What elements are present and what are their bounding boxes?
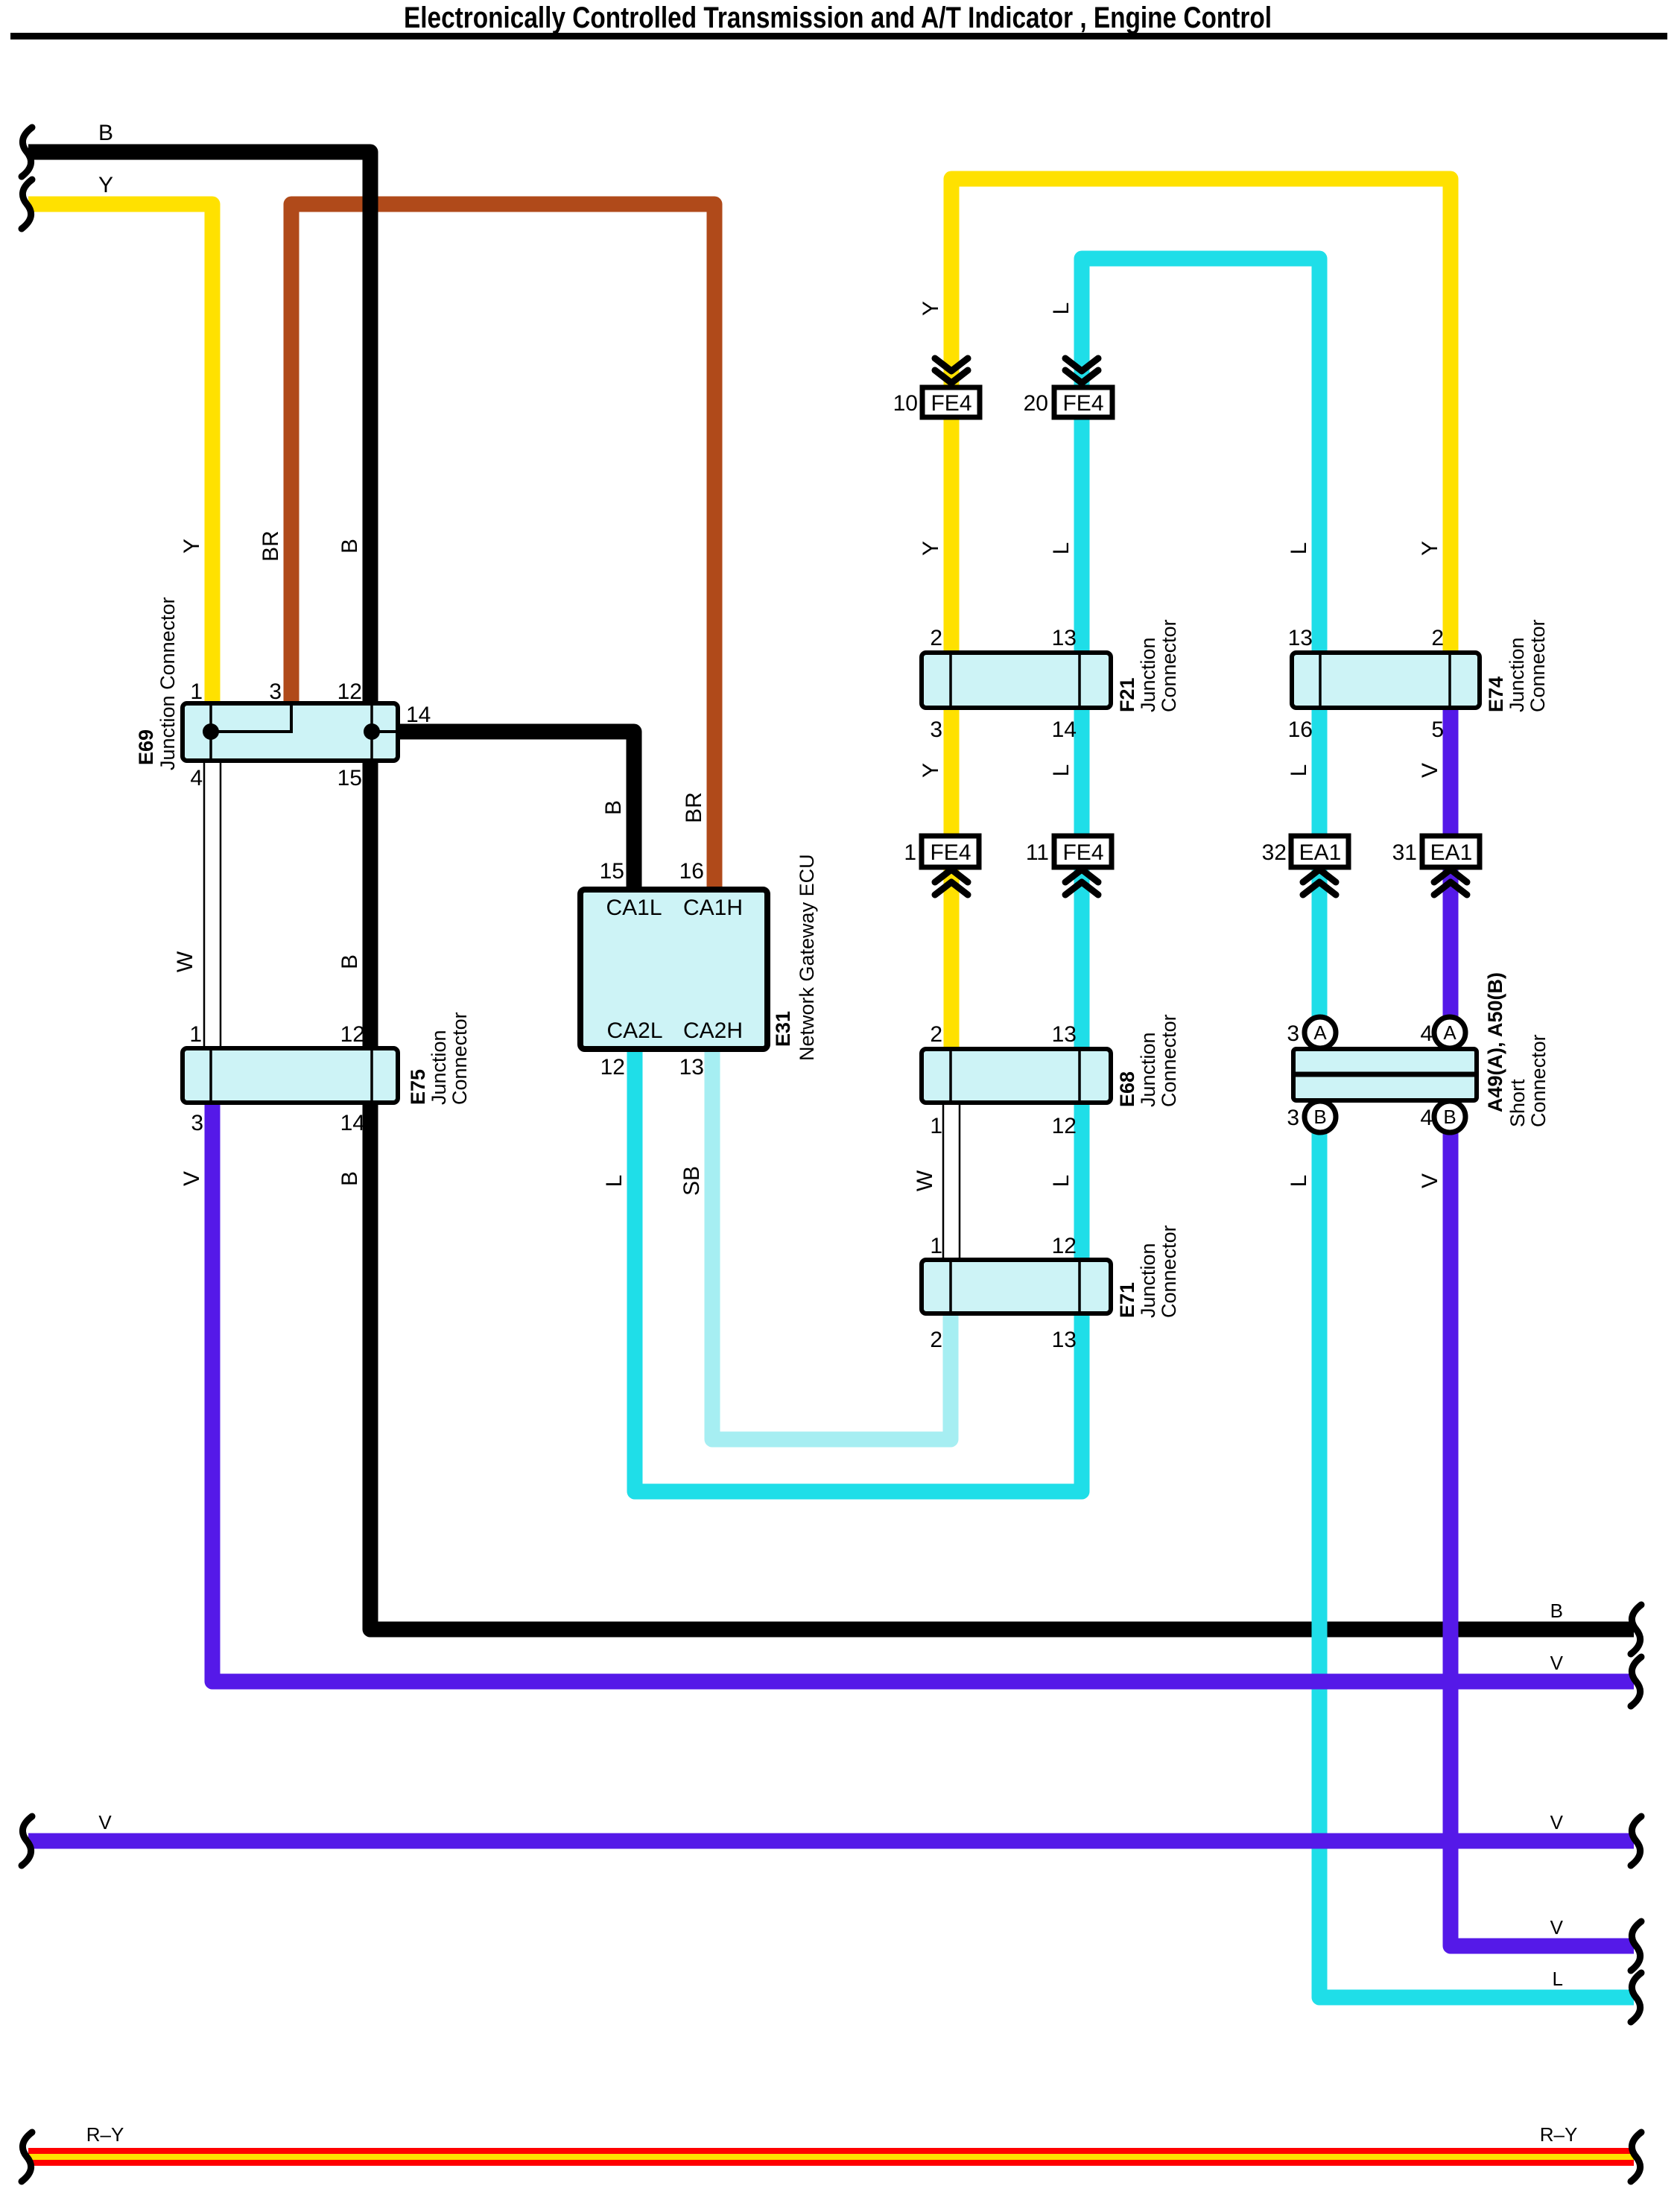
wire V violet: A50 circle 4B down, right to edge bbox=[1451, 1132, 1634, 1946]
svg-text:12: 12 bbox=[600, 1055, 625, 1080]
chevron arrows into EA1 (32) bbox=[1303, 869, 1336, 895]
svg-text:Short: Short bbox=[1506, 1079, 1529, 1127]
wire SB pale blue: E31 pin 13 to E71 pin 2 bbox=[712, 1049, 951, 1439]
junction connector E74 box bbox=[1292, 653, 1480, 708]
wire B black: E69 pin 14 to E31 pin 15 bbox=[398, 732, 634, 890]
svg-text:3: 3 bbox=[1287, 1021, 1299, 1046]
wire W white (two thin lines): E69 pin 4 to E75 pin 1 bbox=[204, 761, 221, 1048]
break squiggle right of wire L bbox=[1631, 1973, 1641, 2022]
chevron arrows into FE4 (10) bbox=[935, 358, 968, 383]
svg-text:B: B bbox=[337, 539, 362, 554]
svg-text:Connector: Connector bbox=[1158, 1014, 1180, 1107]
svg-text:W: W bbox=[173, 951, 197, 972]
break squiggle right of wire V from E74 bbox=[1631, 1921, 1641, 1971]
junction connector E69 box bbox=[183, 703, 398, 761]
svg-text:W: W bbox=[913, 1170, 937, 1191]
chevron arrows into EA1 (31) bbox=[1434, 869, 1467, 895]
svg-text:13: 13 bbox=[679, 1055, 704, 1080]
svg-text:B: B bbox=[337, 1171, 362, 1186]
junction connector E68 box bbox=[922, 1049, 1111, 1103]
svg-text:V: V bbox=[98, 1811, 112, 1834]
svg-text:L: L bbox=[1287, 764, 1311, 777]
svg-text:Y: Y bbox=[919, 541, 943, 556]
svg-text:14: 14 bbox=[1052, 717, 1077, 742]
svg-text:E68: E68 bbox=[1116, 1071, 1138, 1107]
svg-text:V: V bbox=[180, 1171, 204, 1186]
wire L cyan: E74 pin 16 down to EA1-32 and A49 circle 3A bbox=[1312, 708, 1328, 1017]
svg-text:11: 11 bbox=[1026, 840, 1049, 865]
wire BR brown: E69 pin 3 up, right, down to E31 pin 16 bbox=[291, 204, 714, 890]
wire L cyan: F21 pin 14 to E68 pin 13 bbox=[1074, 708, 1090, 1049]
svg-text:1: 1 bbox=[189, 1022, 202, 1047]
svg-text:B: B bbox=[98, 121, 113, 145]
wire L cyan: top loop FE4-20 to E74 pin 13 bbox=[1082, 259, 1319, 653]
svg-text:1: 1 bbox=[190, 679, 203, 704]
connector FE4 (20) box bbox=[1054, 387, 1112, 417]
connector FE4 (11) box bbox=[1054, 836, 1112, 867]
svg-text:3: 3 bbox=[269, 679, 282, 704]
svg-text:Y: Y bbox=[180, 539, 204, 554]
svg-text:5: 5 bbox=[1431, 717, 1444, 742]
short connector circle pin 4 A bbox=[1434, 1017, 1465, 1048]
svg-text:CA1H: CA1H bbox=[683, 896, 743, 920]
svg-text:Connector: Connector bbox=[1158, 1225, 1180, 1318]
svg-text:Y: Y bbox=[919, 763, 943, 778]
svg-text:13: 13 bbox=[1052, 1022, 1077, 1047]
svg-text:R–Y: R–Y bbox=[86, 2123, 124, 2146]
svg-text:12: 12 bbox=[1052, 1114, 1077, 1138]
svg-text:2: 2 bbox=[1431, 626, 1444, 650]
svg-text:10: 10 bbox=[893, 391, 918, 416]
wire L cyan: U loop E31 pin 12 to E71 pin 13 bbox=[635, 1049, 1082, 1492]
break squiggle right of wire R-Y bbox=[1631, 2132, 1641, 2181]
svg-text:A: A bbox=[1313, 1021, 1327, 1044]
wire L cyan: FE4-20 to F21 pin 13 bbox=[1074, 417, 1090, 653]
connector FE4 (1) box bbox=[922, 836, 979, 867]
svg-text:Y: Y bbox=[919, 301, 943, 316]
svg-text:Y: Y bbox=[98, 173, 113, 197]
svg-text:CA2L: CA2L bbox=[606, 1018, 662, 1043]
svg-text:Connector: Connector bbox=[1527, 619, 1549, 712]
svg-text:B: B bbox=[1443, 1106, 1456, 1128]
svg-text:4: 4 bbox=[190, 766, 203, 790]
short connector circle pin 3 A bbox=[1305, 1017, 1336, 1048]
svg-text:1: 1 bbox=[930, 1234, 942, 1258]
short connector circle pin 3 B bbox=[1305, 1101, 1336, 1132]
svg-text:L: L bbox=[1287, 1175, 1311, 1188]
svg-text:Junction Connector: Junction Connector bbox=[156, 597, 179, 770]
svg-text:3: 3 bbox=[191, 1111, 203, 1135]
svg-text:L: L bbox=[1049, 302, 1074, 315]
wire Y yellow: left edge to E69 pin 1 bbox=[28, 204, 212, 704]
svg-text:13: 13 bbox=[1052, 626, 1077, 650]
title rule bbox=[10, 33, 1667, 39]
wire B black: left edge to E69 pin 12 bbox=[28, 152, 370, 704]
break squiggle left of wire Y bbox=[22, 180, 32, 229]
chevron arrows into FE4 (11) bbox=[1065, 869, 1098, 895]
svg-text:EA1: EA1 bbox=[1299, 840, 1342, 865]
svg-text:FE4: FE4 bbox=[1062, 391, 1103, 416]
wire L cyan: A49 circle 3B down, right to edge bbox=[1319, 1132, 1634, 1997]
svg-text:14: 14 bbox=[340, 1111, 365, 1135]
break squiggle left of wire B bbox=[22, 127, 32, 177]
junction connector F21 box bbox=[922, 653, 1111, 708]
wire W white (two thin lines): E68 pin 1 to E71 pin 1 bbox=[943, 1103, 960, 1260]
svg-text:V: V bbox=[1418, 763, 1442, 778]
svg-text:B: B bbox=[1550, 1600, 1563, 1622]
network gateway ECU E31 box bbox=[580, 890, 767, 1049]
svg-text:BR: BR bbox=[259, 530, 283, 562]
svg-text:Junction: Junction bbox=[1137, 1032, 1159, 1107]
svg-text:Junction: Junction bbox=[1137, 637, 1159, 712]
wire V violet: full width middle bbox=[28, 1834, 1634, 1849]
svg-text:Connector: Connector bbox=[1158, 619, 1180, 712]
break squiggle left of wire R-Y bbox=[22, 2132, 32, 2181]
svg-text:L: L bbox=[1553, 1968, 1563, 1990]
svg-text:L: L bbox=[1049, 764, 1074, 777]
svg-text:13: 13 bbox=[1052, 1328, 1077, 1352]
junction connector E71 box bbox=[922, 1260, 1111, 1313]
svg-text:E31: E31 bbox=[772, 1011, 794, 1047]
svg-text:4: 4 bbox=[1420, 1021, 1433, 1046]
svg-text:L: L bbox=[1287, 542, 1311, 555]
wire B black: E69 pin 15 down, right to edge bbox=[370, 761, 1634, 1629]
svg-text:V: V bbox=[1550, 1652, 1564, 1674]
svg-text:14: 14 bbox=[406, 703, 431, 727]
svg-text:2: 2 bbox=[930, 626, 942, 650]
svg-text:L: L bbox=[1049, 542, 1074, 555]
E69 internal bus pin3 to node bbox=[211, 706, 291, 732]
short connector circle pin 4 B bbox=[1434, 1101, 1465, 1132]
E69 junction node dot left bbox=[203, 723, 219, 740]
svg-text:Junction: Junction bbox=[1137, 1243, 1159, 1318]
svg-text:1: 1 bbox=[930, 1114, 942, 1138]
svg-text:31: 31 bbox=[1392, 840, 1417, 865]
svg-text:A: A bbox=[1443, 1021, 1456, 1044]
svg-text:1: 1 bbox=[904, 840, 916, 865]
svg-text:4: 4 bbox=[1420, 1106, 1433, 1130]
wire Y yellow: F21 pin 3 to E68 pin 2 bbox=[944, 708, 960, 1049]
svg-text:F21: F21 bbox=[1116, 677, 1138, 712]
svg-text:2: 2 bbox=[930, 1022, 942, 1047]
svg-text:2: 2 bbox=[930, 1328, 942, 1352]
svg-text:B: B bbox=[1313, 1106, 1326, 1128]
svg-text:V: V bbox=[1550, 1811, 1564, 1834]
svg-text:15: 15 bbox=[337, 766, 362, 790]
short connector A49(A), A50(B) box bbox=[1293, 1017, 1477, 1132]
wire Y yellow: FE4-10 to F21 pin 2 bbox=[944, 417, 960, 653]
svg-text:V: V bbox=[1550, 1916, 1564, 1939]
svg-text:E75: E75 bbox=[407, 1069, 429, 1105]
svg-text:16: 16 bbox=[679, 859, 704, 884]
svg-text:Network Gateway ECU: Network Gateway ECU bbox=[796, 854, 818, 1061]
connector EA1 (31) box bbox=[1422, 836, 1480, 867]
E69 internal stub node to pin 14 bbox=[372, 730, 396, 733]
svg-text:Y: Y bbox=[1418, 541, 1442, 556]
svg-text:Connector: Connector bbox=[448, 1012, 471, 1105]
wire L cyan: E68 pin 12 to E71 pin 12 bbox=[1074, 1103, 1090, 1260]
wire V violet: E75 pin 3 down, right to edge bbox=[212, 1103, 1634, 1682]
svg-text:16: 16 bbox=[1288, 717, 1313, 742]
svg-text:3: 3 bbox=[930, 717, 942, 742]
svg-text:B: B bbox=[601, 800, 626, 815]
svg-text:E71: E71 bbox=[1116, 1282, 1138, 1318]
chevron arrows into FE4 (1) bbox=[935, 869, 968, 895]
svg-text:FE4: FE4 bbox=[930, 840, 971, 865]
wire R-Y red with yellow stripe: bottom full width bbox=[28, 2148, 1634, 2166]
svg-text:L: L bbox=[1049, 1175, 1074, 1188]
break squiggle right of wire B bbox=[1631, 1605, 1641, 1654]
svg-text:32: 32 bbox=[1262, 840, 1287, 865]
break squiggle right of wire V middle bbox=[1631, 1816, 1641, 1866]
svg-text:BR: BR bbox=[682, 792, 706, 823]
wire V violet: E74 pin 5 down to EA1-31 and A50 circle 4A bbox=[1443, 708, 1459, 1017]
svg-text:15: 15 bbox=[600, 859, 624, 884]
svg-text:A49(A), A50(B): A49(A), A50(B) bbox=[1484, 972, 1506, 1112]
connector EA1 (32) box bbox=[1291, 836, 1348, 867]
svg-text:FE4: FE4 bbox=[931, 391, 971, 416]
svg-text:L: L bbox=[602, 1175, 627, 1188]
svg-text:B: B bbox=[337, 954, 362, 969]
svg-text:12: 12 bbox=[340, 1022, 365, 1047]
wire Y yellow: top loop to FE4-10 and E74 pin 2 bbox=[951, 179, 1451, 653]
connector FE4 (10) box bbox=[922, 387, 980, 417]
svg-text:13: 13 bbox=[1288, 626, 1313, 650]
break squiggle right of wire V from E75 bbox=[1631, 1657, 1641, 1706]
svg-text:V: V bbox=[1418, 1173, 1442, 1188]
svg-text:Junction: Junction bbox=[1506, 637, 1528, 712]
svg-text:12: 12 bbox=[1052, 1234, 1077, 1258]
svg-text:3: 3 bbox=[1287, 1106, 1299, 1130]
chevron arrows into FE4 (20) bbox=[1065, 358, 1098, 383]
junction connector E75 box bbox=[183, 1048, 398, 1103]
svg-text:CA1L: CA1L bbox=[606, 896, 662, 920]
svg-text:SB: SB bbox=[679, 1166, 704, 1196]
svg-text:R–Y: R–Y bbox=[1540, 2123, 1578, 2146]
svg-text:Connector: Connector bbox=[1527, 1034, 1550, 1127]
svg-text:CA2H: CA2H bbox=[683, 1018, 743, 1043]
svg-text:E69: E69 bbox=[135, 729, 157, 765]
svg-text:FE4: FE4 bbox=[1062, 840, 1103, 865]
svg-text:EA1: EA1 bbox=[1430, 840, 1473, 865]
svg-text:12: 12 bbox=[337, 679, 362, 704]
svg-text:Junction: Junction bbox=[428, 1030, 450, 1105]
svg-text:Electronically Controlled Tran: Electronically Controlled Transmission a… bbox=[404, 1, 1272, 34]
svg-text:E74: E74 bbox=[1485, 676, 1507, 712]
svg-text:20: 20 bbox=[1024, 391, 1048, 416]
E69 junction node dot right bbox=[364, 723, 380, 740]
break squiggle left of wire V middle bbox=[22, 1816, 32, 1866]
